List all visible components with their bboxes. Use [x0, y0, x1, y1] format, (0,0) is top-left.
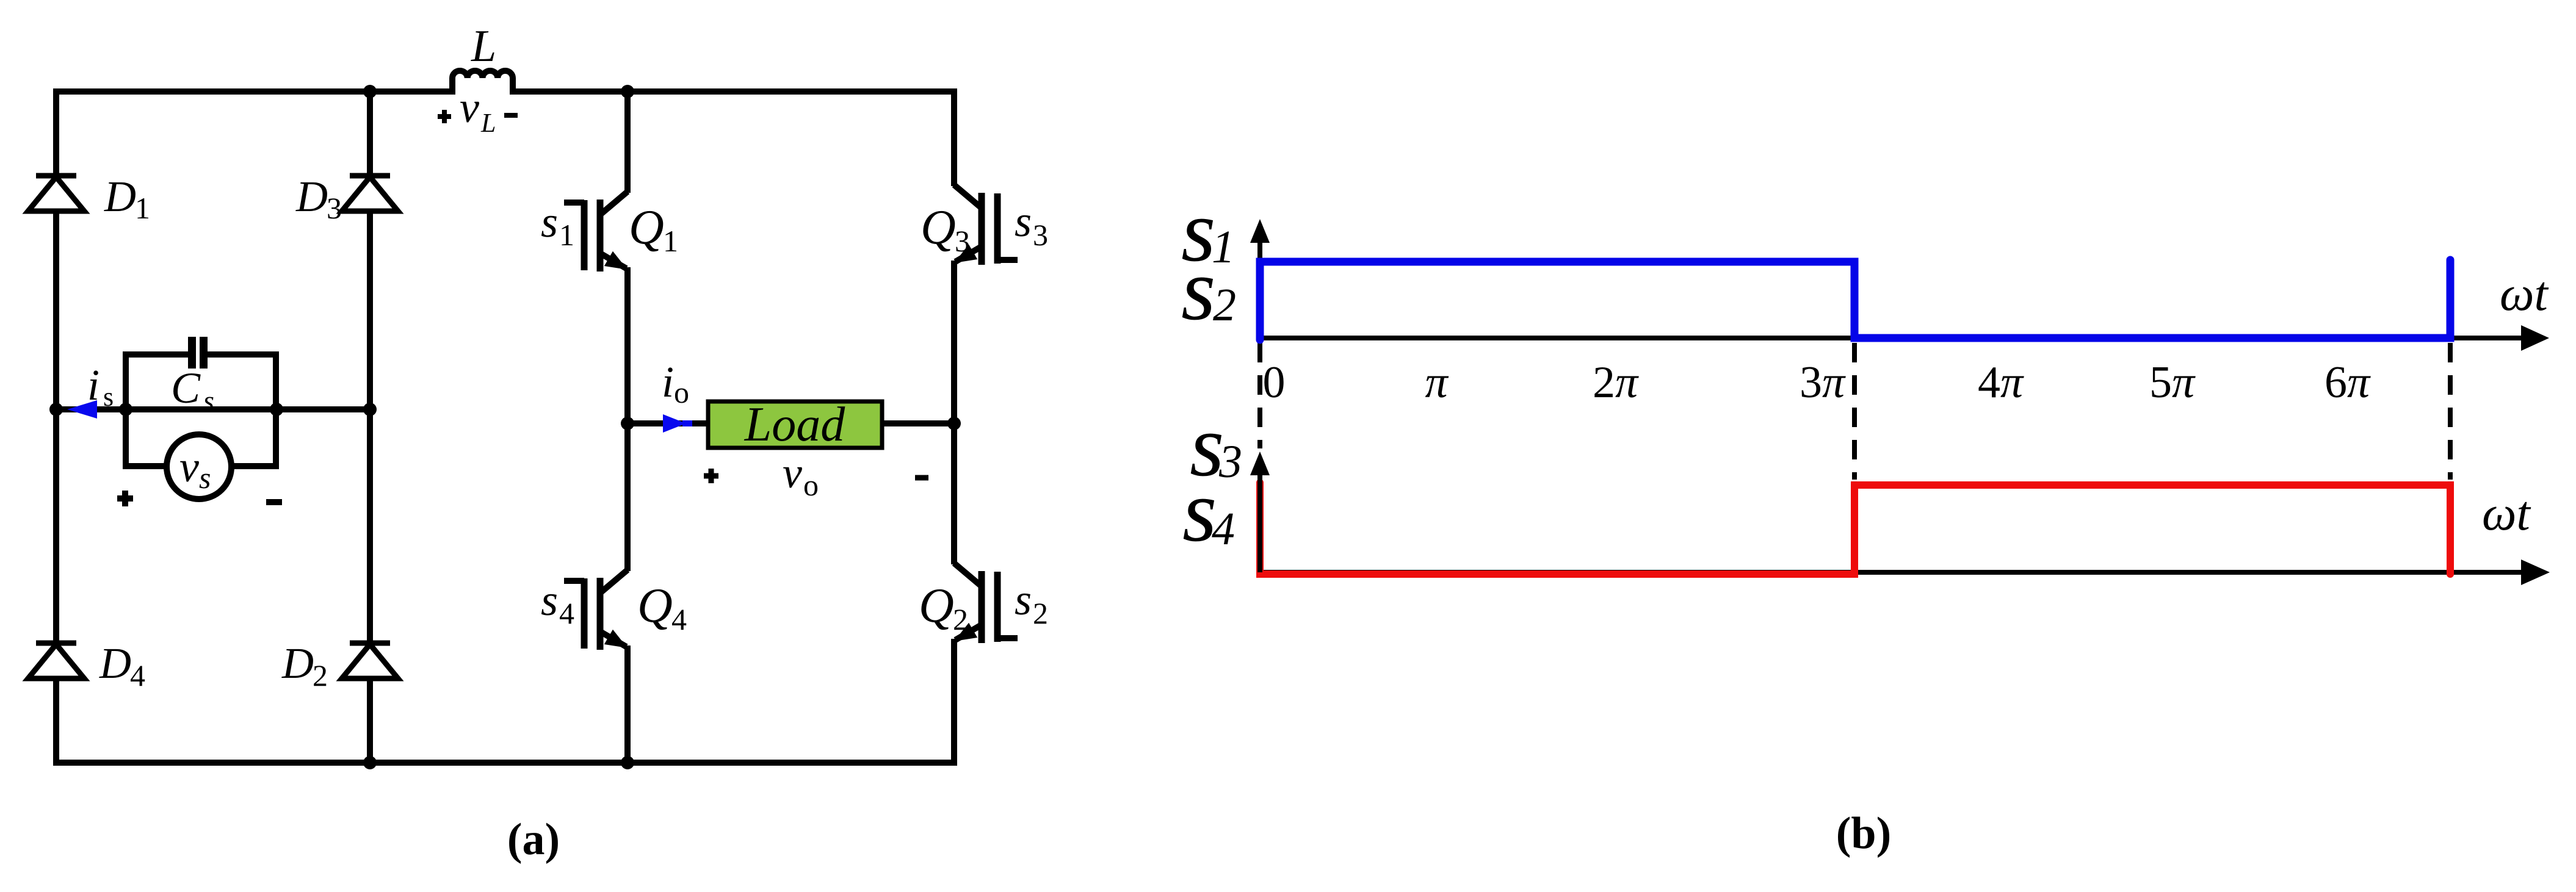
svg-text:0: 0 — [1263, 358, 1286, 408]
svg-text:Q: Q — [629, 201, 664, 254]
svg-text:D: D — [99, 639, 131, 688]
svg-text:s: s — [541, 576, 558, 625]
svg-text:s: s — [103, 382, 114, 412]
svg-text:C: C — [171, 364, 201, 412]
svg-text:L: L — [471, 21, 496, 71]
svg-text:(a): (a) — [507, 815, 560, 865]
svg-text:Q: Q — [637, 579, 673, 633]
svg-text:L: L — [480, 108, 496, 138]
svg-text:6π: 6π — [2325, 358, 2371, 408]
svg-text:v: v — [783, 448, 802, 497]
svg-text:2: 2 — [953, 602, 968, 636]
svg-text:Q: Q — [921, 201, 956, 254]
svg-text:i: i — [662, 358, 674, 406]
svg-text:3: 3 — [1218, 436, 1242, 487]
svg-text:1: 1 — [559, 218, 574, 252]
svg-text:2: 2 — [1033, 596, 1048, 630]
svg-text:s: s — [1015, 575, 1032, 624]
svg-text:4: 4 — [130, 658, 145, 692]
svg-text:s: s — [541, 198, 558, 246]
svg-text:3π: 3π — [1800, 358, 1846, 408]
svg-text:1: 1 — [135, 191, 150, 225]
svg-text:(b): (b) — [1836, 808, 1891, 858]
svg-text:ωt: ωt — [2500, 267, 2549, 321]
svg-text:s: s — [1015, 197, 1032, 246]
svg-text:4π: 4π — [1978, 358, 2024, 408]
svg-text:ωt: ωt — [2482, 487, 2531, 541]
svg-text:D: D — [295, 172, 328, 221]
svg-text:2: 2 — [1213, 279, 1236, 331]
svg-text:v: v — [460, 83, 479, 132]
svg-text:D: D — [281, 639, 314, 688]
svg-text:5π: 5π — [2149, 358, 2196, 408]
svg-text:s: s — [199, 461, 211, 495]
svg-text:o: o — [674, 375, 689, 409]
svg-text:o: o — [803, 468, 819, 502]
svg-text:2: 2 — [313, 658, 328, 692]
svg-text:2π: 2π — [1593, 358, 1639, 408]
svg-text:i: i — [87, 361, 99, 409]
svg-text:4: 4 — [1212, 503, 1235, 555]
svg-text:D: D — [104, 172, 136, 221]
svg-text:π: π — [1425, 358, 1449, 408]
svg-text:v: v — [179, 442, 199, 491]
svg-text:s: s — [203, 385, 214, 416]
svg-text:4: 4 — [559, 596, 574, 630]
svg-text:Load: Load — [744, 398, 845, 451]
svg-text:1: 1 — [663, 224, 678, 258]
svg-text:4: 4 — [671, 602, 687, 636]
svg-text:Q: Q — [919, 579, 954, 633]
svg-text:s: s — [1181, 241, 1215, 339]
svg-text:3: 3 — [327, 191, 342, 225]
svg-text:3: 3 — [1033, 218, 1048, 252]
svg-text:3: 3 — [955, 224, 970, 258]
